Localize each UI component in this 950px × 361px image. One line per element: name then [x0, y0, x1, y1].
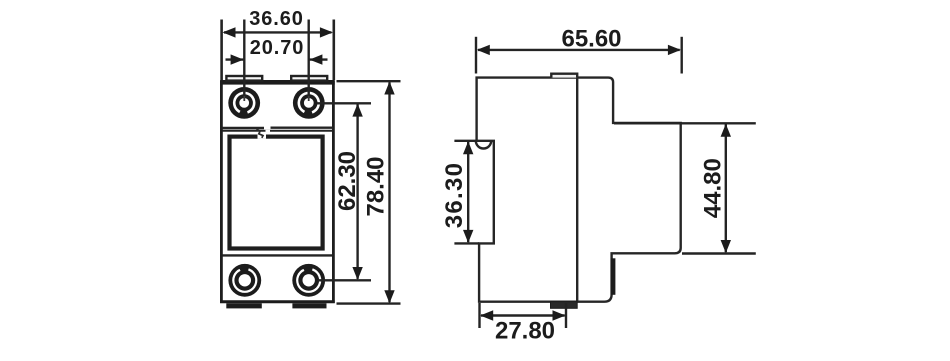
dim 62.30 bottom extension line (from bottom-right terminal): [318, 279, 371, 281]
side view internal vertical parting line: [576, 78, 578, 302]
side view DIN clip bar: [611, 258, 616, 295]
dim line 78.40 vertical with arrows: [384, 82, 394, 304]
svg-text:62.30: 62.30: [334, 151, 361, 211]
svg-text:27.80: 27.80: [495, 317, 555, 344]
front view upper seam line (broken): [223, 126, 333, 129]
svg-text:44.80: 44.80: [700, 158, 727, 218]
dim text 27.80: [495, 317, 555, 344]
dim 20.70 left extension line: [243, 20, 245, 102]
dim 44.80 top extension line: [614, 122, 756, 124]
top-left terminal circle: [228, 87, 260, 119]
dim 78.40 top extension line (from body top): [337, 80, 401, 82]
svg-text:65.60: 65.60: [561, 26, 621, 53]
dim line 20.70 with outside arrows: [226, 54, 328, 64]
side view terminal screw notch (arc): [476, 141, 491, 149]
side view top tab: [551, 74, 577, 78]
front view lower seam line of top block: [223, 130, 333, 132]
front view top-left mounting tab: [226, 76, 262, 81]
dim 27.80 left extension line: [478, 303, 480, 328]
dim text 36.60: [249, 8, 304, 30]
side view body outline: [477, 78, 681, 302]
dim line 36.30 vertical with arrows: [463, 141, 473, 243]
front view top edge thick bar: [220, 80, 335, 85]
dim text 78.40 (rotated): [363, 156, 390, 216]
dim line 62.30 vertical with arrows: [352, 104, 362, 280]
front view bottom-left foot: [226, 303, 261, 308]
dim line 27.80 with arrows: [480, 310, 565, 320]
side view bottom tab: [551, 302, 578, 309]
dim line 65.60 with arrows: [477, 45, 681, 55]
front view body outline: [221, 82, 333, 302]
dim 65.60 left extension line: [475, 37, 477, 74]
front view seam line above bottom terminals: [223, 254, 333, 256]
dim 78.40 bottom extension line (from body bottom): [337, 302, 401, 304]
bottom-left terminal circle: [228, 264, 261, 297]
svg-text:20.70: 20.70: [250, 37, 305, 59]
dim 62.30 top extension line (from top-right terminal): [317, 102, 371, 104]
svg-text:78.40: 78.40: [363, 156, 390, 216]
dim text 44.80 (rotated): [700, 158, 727, 218]
dim 36.60 right extension line: [332, 20, 335, 81]
dim 36.60 left extension line: [220, 20, 223, 81]
front view bottom-right foot: [292, 303, 326, 308]
dim 27.80 right extension line: [565, 303, 567, 328]
front view bottom edge line: [220, 300, 335, 303]
window top-left break squiggle: [257, 129, 271, 139]
front view top-right mounting tab: [291, 76, 327, 81]
dim 20.70 right extension line: [308, 20, 310, 102]
dim 36.30 top extension line: [454, 140, 476, 142]
dim 36.30 bottom extension line: [454, 242, 479, 244]
dim text 20.70: [250, 37, 305, 59]
top-right terminal circle: [293, 87, 325, 119]
dim text 62.30 (rotated): [334, 151, 361, 211]
dim 44.80 bottom extension line: [682, 252, 756, 254]
dim line 44.80 vertical with arrows: [721, 124, 731, 253]
dim 65.60 right extension line: [681, 37, 683, 74]
dim text 36.30 (rotated): [441, 162, 468, 229]
dim line 36.60 with arrows: [223, 27, 333, 37]
svg-text:36.30: 36.30: [441, 162, 468, 229]
bottom-right terminal circle: [292, 264, 325, 297]
front view display window: [230, 137, 323, 249]
dim text 65.60: [561, 26, 621, 53]
svg-text:36.60: 36.60: [249, 8, 304, 30]
